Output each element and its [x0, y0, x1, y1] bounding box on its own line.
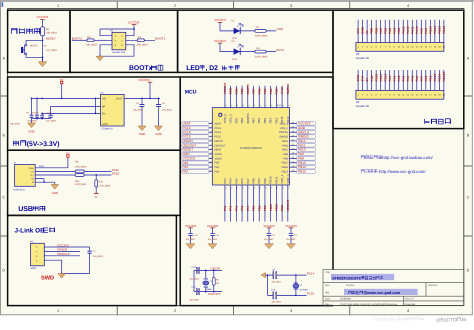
svg-text:20p_0603: 20p_0603	[272, 301, 282, 304]
svg-text:USB-micro: USB-micro	[13, 189, 25, 192]
svg-text:PB5: PB5	[263, 88, 267, 94]
svg-text:PA9: PA9	[419, 28, 423, 34]
svg-text:PB11: PB11	[379, 74, 383, 82]
svg-text:(5V->3.3V): (5V->3.3V)	[27, 141, 60, 148]
svg-text:PB10: PB10	[269, 203, 273, 211]
svg-text:VCC3V3: VCC3V3	[57, 243, 69, 247]
svg-text:43: 43	[253, 104, 255, 107]
port PA2 (U1 left pin 12)	[182, 170, 209, 174]
wire switch bottom	[26, 55, 43, 58]
port VBAT (U1 left pin 1)	[182, 122, 209, 126]
svg-text:PA6: PA6	[415, 75, 419, 81]
svg-text:38: 38	[282, 104, 284, 107]
port PA0 (U1 left pin 10)	[182, 161, 209, 165]
svg-text:PB3: PB3	[397, 28, 401, 34]
svg-text:GND: GND	[102, 123, 108, 126]
svg-text:2016/5/26: 2016/5/26	[340, 298, 351, 301]
svg-text:13: 13	[225, 186, 227, 189]
svg-text:B: B	[467, 134, 470, 138]
port OSCOUT (U1 left pin 6)	[182, 144, 209, 148]
note taobao url	[361, 156, 381, 159]
svg-text:PA8: PA8	[283, 157, 288, 160]
resistor R4	[137, 39, 144, 42]
capacitor C3	[267, 233, 271, 235]
svg-text:22: 22	[276, 186, 278, 189]
svg-text:Header 20: Header 20	[356, 56, 370, 60]
svg-text:46: 46	[236, 104, 238, 107]
svg-text:PA5: PA5	[410, 75, 414, 81]
svg-text:104_0603: 104_0603	[264, 238, 274, 241]
capacitor C11	[210, 233, 214, 235]
svg-text:PA2: PA2	[183, 170, 189, 174]
svg-text:39: 39	[276, 104, 278, 107]
port PB14 (U1 right pin 26)	[297, 165, 316, 169]
wire D-	[35, 170, 111, 172]
svg-text:510R_0603: 510R_0603	[255, 35, 268, 38]
capacitor C13	[195, 267, 198, 273]
svg-text:PA4: PA4	[406, 75, 410, 81]
wire osc rails	[194, 270, 222, 291]
capacitor C16	[50, 107, 52, 119]
header P5 SWD	[31, 243, 45, 265]
section title 对外端子	[424, 119, 450, 124]
svg-text:PA6: PA6	[240, 205, 244, 211]
ground C4	[287, 244, 296, 249]
svg-text:OSCIN: OSCIN	[211, 267, 220, 271]
capacitor C4	[289, 233, 293, 235]
svg-text:22R_0603: 22R_0603	[75, 166, 87, 169]
svg-text:PB15: PB15	[282, 162, 289, 165]
svg-text:PB3: PB3	[274, 118, 278, 124]
port RESET (U1 left pin 7)	[182, 148, 209, 152]
header P2	[112, 32, 126, 50]
svg-text:PA11: PA11	[410, 26, 414, 34]
wire RESET to switch	[26, 40, 43, 44]
svg-text:ID: ID	[31, 178, 34, 181]
svg-text:3V3: 3V3	[361, 76, 365, 82]
svg-text:PB11: PB11	[274, 204, 278, 212]
svg-text:PB13: PB13	[298, 170, 306, 174]
port arrow osc32	[261, 273, 266, 278]
svg-text:SWCLK: SWCLK	[286, 83, 290, 95]
svg-text:PA15: PA15	[401, 26, 405, 34]
svg-text:SWDIO: SWDIO	[57, 248, 68, 252]
svg-text:PC15: PC15	[307, 292, 315, 296]
svg-text:18: 18	[253, 186, 255, 189]
svg-text:STM32F103C8T6: STM32F103C8T6	[240, 146, 263, 150]
svg-text:VIN: VIN	[102, 98, 106, 101]
svg-text:GND: GND	[28, 129, 34, 133]
svg-text:B: B	[3, 134, 6, 138]
header P4 pin stubs	[358, 70, 444, 90]
connector J1 USB-micro	[15, 165, 36, 187]
svg-text:USB: USB	[18, 206, 33, 213]
svg-text:PB0: PB0	[252, 205, 256, 211]
header P3	[356, 43, 444, 52]
svg-text:PB10: PB10	[269, 176, 273, 183]
svg-text:Drawn By:: Drawn By:	[405, 303, 416, 306]
svg-text:16: 16	[242, 186, 244, 189]
svg-text:GND: GND	[52, 191, 58, 195]
svg-text:PA9: PA9	[283, 153, 288, 156]
svg-text:8MHz: 8MHz	[207, 288, 213, 291]
svg-text:PB3: PB3	[274, 88, 278, 94]
svg-text:PB9: PB9	[234, 118, 238, 124]
svg-text:VDD_3: VDD_3	[223, 114, 227, 124]
svg-text:10K_0603: 10K_0603	[46, 32, 58, 35]
svg-text:PB0: PB0	[424, 75, 428, 81]
svg-text:23: 23	[282, 186, 284, 189]
led D2	[234, 48, 241, 54]
svg-text:14: 14	[231, 186, 233, 189]
svg-text:PB12: PB12	[383, 73, 387, 81]
svg-text:105_0603: 105_0603	[10, 123, 21, 126]
svg-text:, D2: , D2	[205, 65, 218, 72]
header P3 pin stubs	[358, 20, 444, 43]
svg-text:GND: GND	[139, 132, 145, 136]
wire boot top loop	[100, 29, 134, 36]
port VCC3V3 (U1 right pin 36)	[297, 122, 316, 126]
svg-text:PA2: PA2	[215, 170, 220, 173]
svg-text:RESET: RESET	[30, 45, 39, 48]
svg-text:PB0: PB0	[252, 178, 256, 184]
svg-text:PC15: PC15	[215, 136, 222, 139]
header P4	[356, 90, 444, 99]
port PB13 (U1 right pin 25)	[297, 170, 316, 174]
svg-text:NRST: NRST	[215, 149, 222, 152]
svg-text:A: A	[467, 57, 470, 61]
svg-text:PC13: PC13	[215, 127, 222, 130]
svg-text:10K_0603: 10K_0603	[86, 44, 98, 47]
svg-text:GND: GND	[277, 27, 283, 31]
resistor R11	[75, 174, 84, 177]
svg-text:Revision: Revision	[428, 284, 438, 287]
svg-text:22u_0603: 22u_0603	[46, 120, 57, 123]
capacitor C10	[188, 233, 192, 235]
wire caps bottom	[32, 118, 51, 120]
svg-text:45: 45	[242, 104, 244, 107]
svg-text:PB14: PB14	[433, 26, 437, 34]
svg-text:PB5: PB5	[263, 118, 267, 124]
svg-text:PA7: PA7	[419, 75, 423, 81]
svg-text::http://www.vcc-gnd.com/: :http://www.vcc-gnd.com/	[378, 169, 427, 174]
svg-text:PA3: PA3	[223, 205, 227, 211]
svg-text:PB7: PB7	[252, 88, 256, 94]
port SWCLK (U1 right pin 34)	[297, 130, 316, 134]
svg-text:PA10: PA10	[282, 149, 289, 152]
svg-text:OSCIN: OSCIN	[215, 140, 223, 143]
svg-text:SWDCLK: SWDCLK	[57, 252, 70, 256]
crystal Y1 8MHz	[205, 270, 207, 291]
resistor R5	[255, 50, 266, 53]
svg-text:3: 3	[290, 309, 292, 313]
wire EN line	[42, 112, 100, 114]
ground swd	[58, 274, 66, 279]
svg-text:STM32F103C8T6: STM32F103C8T6	[332, 276, 361, 280]
svg-text:PA0: PA0	[388, 75, 392, 81]
svg-text:106_0603: 106_0603	[133, 109, 144, 112]
svg-text:LED: LED	[232, 58, 237, 61]
port PA10 (U1 right pin 30)	[297, 148, 316, 152]
port SWDIO (U1 right pin 33)	[297, 135, 316, 139]
svg-text:BOOT0: BOOT0	[246, 84, 250, 95]
svg-text:GND: GND	[155, 132, 161, 136]
wire osc32 rails	[266, 275, 307, 295]
svg-text:VCC3V3: VCC3V3	[285, 224, 297, 228]
resistor R1	[255, 30, 266, 33]
svg-text:PA0: PA0	[215, 162, 220, 165]
svg-text:R10: R10	[99, 180, 104, 183]
svg-text:1: 1	[57, 4, 59, 8]
capacitor C5	[31, 98, 33, 118]
svg-text:PA5: PA5	[234, 178, 238, 184]
svg-text:OSCOUT: OSCOUT	[215, 144, 227, 147]
svg-text:VSS_2: VSS_2	[280, 127, 289, 130]
svg-text:PB7: PB7	[379, 28, 383, 34]
resistor R3	[87, 39, 94, 42]
svg-text:37: 37	[288, 104, 290, 107]
svg-text:PB4: PB4	[269, 88, 273, 94]
port PA9 (U1 right pin 29)	[297, 152, 316, 156]
ic U1 STM32F103C8T6	[212, 108, 289, 185]
svg-text:A4: A4	[326, 292, 330, 295]
svg-text:104_0603: 104_0603	[286, 238, 296, 241]
svg-text:PB1: PB1	[428, 75, 432, 81]
svg-text:104_0603: 104_0603	[46, 49, 57, 52]
capacitor C8	[156, 105, 161, 107]
port VCC3V3 (U1 left pin 9)	[182, 157, 209, 161]
svg-text:File:: File:	[325, 303, 330, 306]
svg-text:PC14: PC14	[215, 131, 222, 134]
svg-text:VCC3V3: VCC3V3	[223, 82, 227, 94]
svg-text:Sheet of: Sheet of	[405, 298, 414, 301]
svg-text:www.vcc-gnd.com: www.vcc-gnd.com	[366, 291, 401, 295]
svg-text:VSS_1: VSS_1	[280, 174, 284, 183]
svg-text:VSSA: VSSA	[215, 153, 222, 156]
svg-text:VDDA: VDDA	[215, 157, 222, 160]
port PA1 (U1 left pin 11)	[182, 165, 209, 169]
svg-text:SWD: SWD	[41, 275, 54, 281]
svg-text:10K_0603: 10K_0603	[137, 44, 149, 47]
wire D+	[35, 174, 111, 176]
svg-text:17: 17	[248, 186, 250, 189]
ic U1 bottom pin stubs	[225, 185, 288, 222]
svg-text:PB8: PB8	[240, 118, 244, 124]
svg-text:PC13: PC13	[277, 48, 285, 52]
svg-text:PB10: PB10	[374, 73, 378, 81]
svg-text:PA12: PA12	[406, 26, 410, 34]
svg-text:PA1: PA1	[215, 166, 220, 169]
svg-text:PB6: PB6	[383, 28, 387, 34]
svg-text:1.5K_0603: 1.5K_0603	[99, 184, 111, 187]
capacitor C9	[272, 272, 275, 279]
svg-text:GND: GND	[280, 204, 284, 212]
svg-text:VCC3V3: VCC3V3	[37, 15, 49, 19]
svg-text:104_0603: 104_0603	[27, 120, 38, 123]
ground C3	[265, 244, 274, 249]
wire boot bottom loop	[100, 45, 134, 56]
svg-text:BOOT0: BOOT0	[72, 36, 82, 40]
capacitor C4	[140, 105, 145, 107]
capacitor C7	[41, 113, 43, 118]
svg-text:VBAT: VBAT	[215, 122, 222, 125]
svg-text:BP: BP	[102, 106, 106, 109]
svg-text:HelloWorld_Fly: HelloWorld_Fly	[374, 317, 403, 322]
svg-text:PB2: PB2	[263, 205, 267, 211]
svg-text:41: 41	[265, 104, 267, 107]
svg-text:LED: LED	[186, 65, 200, 72]
svg-text:C: C	[2, 196, 5, 200]
svg-text:PB11: PB11	[274, 176, 278, 183]
port PC15 (U1 left pin 4)	[182, 135, 209, 139]
svg-text:C:\VCC-GND WORK FILE\15-F1\..\: C:\VCC-GND WORK FILE\15-F1\..\STM32F103C…	[340, 303, 397, 306]
svg-text:PB8: PB8	[374, 28, 378, 34]
ic U1 left pin stubs	[209, 124, 213, 172]
ground usb	[51, 185, 59, 190]
svg-text:15: 15	[236, 186, 238, 189]
svg-text:J-Link OB: J-Link OB	[15, 227, 46, 234]
svg-text:PA12: PA12	[112, 171, 119, 175]
svg-text:4: 4	[407, 309, 409, 313]
port GND (U1 right pin 35)	[297, 126, 316, 130]
svg-text:G: G	[32, 181, 34, 184]
svg-text:GND: GND	[356, 74, 360, 82]
svg-text:PC14: PC14	[437, 73, 441, 81]
svg-text:VOUT: VOUT	[116, 98, 123, 101]
svg-text:PB6: PB6	[257, 118, 261, 124]
svg-text:1M: 1M	[216, 282, 219, 285]
capacitor C6	[36, 98, 38, 118]
svg-text:PA7: PA7	[246, 178, 250, 184]
svg-text:PC13: PC13	[433, 73, 437, 81]
svg-text:Header 3X2: Header 3X2	[113, 51, 126, 54]
svg-text:3: 3	[290, 4, 292, 8]
wire led D2	[220, 51, 276, 53]
svg-text:BOOT1: BOOT1	[155, 36, 165, 40]
svg-text:PA15: PA15	[280, 116, 284, 123]
port PC13 (U1 left pin 2)	[182, 126, 209, 130]
svg-text:PB8: PB8	[240, 88, 244, 94]
port PB15 (U1 right pin 27)	[297, 161, 316, 165]
ground reset	[42, 57, 44, 61]
svg-text:VCC3V3: VCC3V3	[286, 199, 290, 211]
wire P5 pin1 VCC3V3	[44, 246, 89, 248]
resistor R6	[213, 270, 215, 291]
wire P5 pin2	[44, 250, 80, 252]
svg-text:19: 19	[259, 186, 261, 189]
capacitor C1	[89, 247, 91, 274]
wire BP line	[51, 106, 101, 108]
svg-text:Date:: Date:	[325, 298, 331, 301]
svg-text:EN: EN	[102, 113, 106, 116]
svg-text:PB7: PB7	[252, 118, 256, 124]
note forum url	[361, 170, 377, 173]
svg-text:104_0603: 104_0603	[208, 238, 218, 241]
switch S1	[25, 44, 27, 46]
section title 复位电路	[11, 28, 39, 34]
crystal Y2 32.768K	[294, 283, 298, 289]
resistor R2	[41, 27, 45, 36]
port PA12 (U1 right pin 32)	[297, 139, 316, 143]
svg-text:PB13: PB13	[282, 170, 289, 173]
svg-text:VCC3V3: VCC3V3	[207, 224, 219, 228]
svg-text:42: 42	[259, 104, 261, 107]
capacitor C12	[272, 292, 275, 299]
wire pin4 to R4 and BOOT1	[130, 39, 155, 41]
power pull-up below R10	[95, 187, 97, 194]
svg-text:Header 20: Header 20	[356, 104, 370, 108]
svg-text:PA4: PA4	[229, 205, 233, 211]
svg-text:VCC3V3: VCC3V3	[128, 20, 140, 24]
svg-text:PA7: PA7	[246, 205, 250, 211]
svg-text:PB1: PB1	[257, 205, 261, 211]
svg-text:2: 2	[174, 309, 176, 313]
svg-text:PB4: PB4	[269, 118, 273, 124]
svg-text:RESET: RESET	[46, 37, 56, 41]
svg-text:104_0603: 104_0603	[162, 109, 173, 112]
svg-text:VCC3V3: VCC3V3	[138, 78, 150, 82]
svg-text:PB13: PB13	[437, 26, 441, 34]
port PC14 (U1 left pin 3)	[182, 130, 209, 134]
svg-text:PB6: PB6	[257, 88, 261, 94]
svg-text:PA3: PA3	[223, 178, 227, 184]
wire P5 pin3	[44, 255, 80, 257]
svg-text:http://vcc-gnd.taobao.com/: http://vcc-gnd.taobao.com/	[382, 155, 433, 160]
wire P5 pin4 to ground	[44, 260, 89, 273]
svg-text:48: 48	[225, 104, 227, 107]
header P2 pin stubs	[106, 36, 130, 45]
svg-text:Title: Title	[325, 271, 330, 274]
svg-text:PA1: PA1	[392, 75, 396, 81]
svg-text:PA8: PA8	[424, 28, 428, 34]
svg-text:40: 40	[271, 104, 273, 107]
svg-text:D-: D-	[31, 170, 34, 173]
svg-text:C6 C7: C6 C7	[32, 112, 39, 115]
ground C8	[158, 112, 160, 126]
svg-text:VCC3V3: VCC3V3	[263, 224, 275, 228]
led D1	[234, 28, 241, 34]
svg-text:PB14: PB14	[282, 166, 289, 169]
svg-text:D: D	[2, 269, 5, 273]
ic U1 top pin stubs	[225, 86, 288, 108]
svg-text:PB9: PB9	[370, 28, 374, 34]
svg-text:BOOTx: BOOTx	[129, 65, 153, 72]
svg-text:PB2: PB2	[370, 75, 374, 81]
svg-text:4: 4	[407, 4, 409, 8]
regulator U2	[101, 94, 125, 126]
section title 电源 5V-3.3V	[13, 141, 26, 146]
svg-text:Number: Number	[346, 284, 355, 287]
svg-text:@51CTO: @51CTO	[436, 317, 457, 323]
svg-text:Size: Size	[325, 284, 330, 287]
svg-text:VCC3V3: VCC3V3	[214, 39, 226, 43]
svg-text:5V: 5V	[95, 196, 98, 199]
svg-text:PB15: PB15	[428, 26, 432, 34]
ground C10	[186, 244, 195, 249]
svg-text:JT5906-33: JT5906-33	[101, 128, 113, 131]
svg-text:104_0603: 104_0603	[186, 238, 196, 241]
svg-text:MCU: MCU	[185, 90, 197, 96]
svg-text:PA12: PA12	[282, 140, 289, 143]
capacitor C14	[195, 289, 198, 295]
svg-text:20: 20	[265, 186, 267, 189]
wire RESET vertical	[42, 36, 44, 62]
wire led D1	[220, 30, 276, 32]
wire ID G to ground	[35, 179, 55, 185]
svg-text:2: 2	[174, 4, 176, 8]
svg-text:BOOT0: BOOT0	[246, 113, 250, 123]
resistor R10	[95, 175, 97, 180]
